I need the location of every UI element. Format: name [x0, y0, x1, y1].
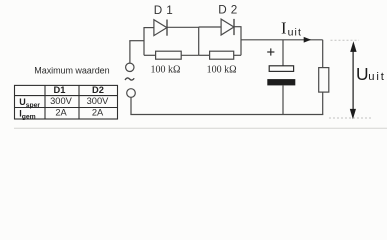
wire: load resistor top lead	[322, 40, 324, 68]
svg-text:U: U	[356, 64, 369, 84]
svg-text:100 kΩ: 100 kΩ	[207, 65, 237, 76]
wire: top terminal up to feed level	[129, 41, 131, 63]
table value Usper D2 = 300V	[87, 96, 110, 106]
svg-text:I: I	[281, 19, 287, 38]
diode D1	[154, 20, 167, 36]
svg-text:300V: 300V	[87, 96, 110, 106]
svg-text:300V: 300V	[50, 96, 73, 106]
svg-text:D1: D1	[54, 85, 66, 95]
wire: capacitor bottom lead	[282, 85, 284, 114]
label Iuit	[281, 19, 302, 39]
label D 2	[218, 3, 237, 16]
table value Usper D1 = 300V	[50, 96, 73, 106]
svg-text:100 kΩ: 100 kΩ	[151, 65, 181, 76]
wire: capacitor top lead (junction at output wire)	[282, 40, 284, 66]
svg-text:uit: uit	[288, 27, 302, 39]
resistor R1 (100 kΩ)	[156, 51, 182, 59]
wire: R1 right lead	[181, 54, 199, 56]
resistor R2 (100 kΩ)	[210, 51, 234, 59]
label Uuit	[356, 64, 386, 84]
current arrow Iuit on output wire	[304, 37, 312, 43]
capacitor C (electrolytic, bottom plate)	[267, 79, 295, 85]
table value Igem D1 = 2A	[55, 108, 67, 118]
wire: D2 cathode to output node	[234, 26, 242, 28]
svg-text:uit: uit	[368, 71, 386, 83]
voltage arrow Uuit (double headed)	[350, 41, 357, 119]
wire: ladder right vertical (output node)	[240, 27, 242, 56]
wire: ladder left vertical	[143, 27, 145, 55]
scan artifact: faint bottom line	[14, 127, 387, 129]
value label 100 kΩ (R2)	[207, 65, 237, 76]
wire: D1 cathode to middle node	[167, 26, 199, 28]
wire: D1 anode	[144, 27, 155, 29]
table title "Maximum waarden"	[34, 66, 109, 76]
wire: R2 right lead	[234, 54, 241, 56]
dashed reference line (bottom, to Uuit arrow)	[329, 117, 372, 119]
wire: feed to ladder left vertical	[129, 40, 144, 42]
svg-text:2A: 2A	[92, 108, 104, 118]
wire: output node to top-right corner	[241, 39, 323, 41]
table value Igem D2 = 2A	[92, 108, 104, 118]
wire: R2 left lead	[199, 54, 210, 56]
AC source symbol ~	[125, 78, 134, 80]
table row label Igem	[19, 109, 36, 121]
svg-text:D 1: D 1	[154, 4, 173, 17]
capacitor C (electrolytic, top plate)	[269, 66, 293, 72]
wire: ladder middle vertical (node between D1 and D2)	[198, 27, 200, 55]
svg-text:D2: D2	[92, 85, 104, 95]
svg-text:D 2: D 2	[218, 3, 237, 16]
table row label Usper	[19, 97, 40, 109]
AC input terminal (bottom)	[127, 89, 136, 98]
wire: bottom return rail	[130, 114, 323, 116]
svg-text:Maximum waarden: Maximum waarden	[34, 66, 109, 76]
wire: load resistor bottom lead	[322, 92, 324, 114]
AC input terminal (top)	[126, 63, 134, 71]
label D 1	[154, 4, 173, 17]
value label 100 kΩ (R1)	[151, 65, 181, 76]
wire: bottom terminal down lead	[130, 97, 132, 114]
load resistor RL	[319, 68, 329, 93]
table header cell D2	[92, 85, 104, 95]
wire: D2 anode	[199, 26, 222, 28]
diode D2	[221, 19, 234, 35]
polarity mark + (capacitor)	[267, 48, 274, 55]
svg-text:2A: 2A	[55, 108, 67, 118]
table header cell D1	[54, 85, 66, 95]
dashed reference line (top, to Uuit arrow)	[331, 39, 360, 41]
table frame (maximum waarden table)	[15, 85, 118, 119]
wire: R1 left lead	[144, 54, 156, 56]
